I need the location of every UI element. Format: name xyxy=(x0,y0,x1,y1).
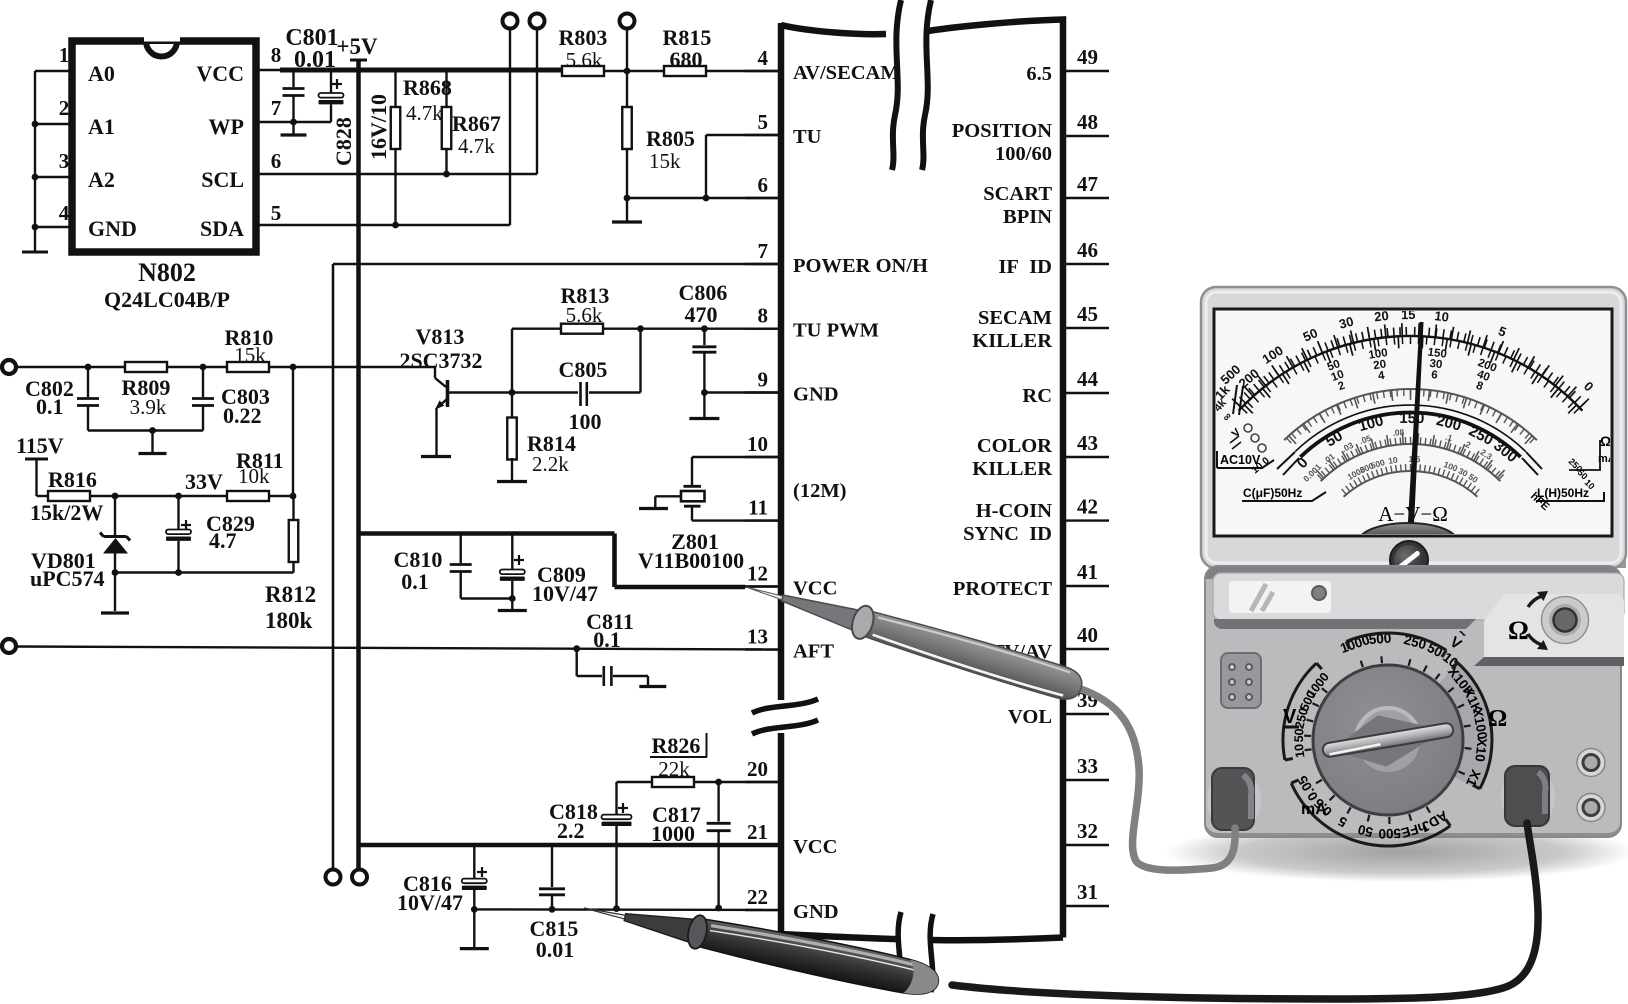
resistor R826 xyxy=(650,733,707,787)
zero adjust knob xyxy=(1390,541,1428,579)
svg-text:R805: R805 xyxy=(646,126,695,151)
wire C802/C803 bottom xyxy=(88,429,203,431)
dial pointer xyxy=(1319,703,1458,776)
pin 48 xyxy=(1066,110,1109,136)
svg-text:4: 4 xyxy=(758,46,769,70)
capacitor C816 electrolytic xyxy=(397,845,487,915)
svg-text:0.1: 0.1 xyxy=(36,394,64,419)
wire pin11 xyxy=(692,519,781,521)
svg-text:31: 31 xyxy=(1077,880,1098,904)
svg-text:41: 41 xyxy=(1077,560,1098,584)
wire N802 left bus xyxy=(22,71,48,252)
svg-text:VOL: VOL xyxy=(1008,706,1052,728)
svg-text:C828: C828 xyxy=(331,117,356,166)
V~ label xyxy=(1447,624,1472,654)
N802 pin 5 xyxy=(256,201,510,225)
svg-text:TU: TU xyxy=(793,126,822,148)
right jacks xyxy=(1577,749,1605,822)
capacitor C805 xyxy=(512,329,641,434)
scale cluster numbers xyxy=(1326,346,1498,393)
svg-text:0.22: 0.22 xyxy=(223,403,262,428)
pin 33 xyxy=(1066,754,1109,780)
svg-text:V813: V813 xyxy=(416,324,465,349)
svg-text:4.7k: 4.7k xyxy=(406,101,443,125)
capacitor C809 electrolytic xyxy=(500,535,598,606)
mirror window xyxy=(1229,581,1331,613)
wire C810/C809 bottom xyxy=(461,595,516,602)
label ohm mA right xyxy=(1567,433,1616,491)
svg-text:R803: R803 xyxy=(559,25,608,50)
pin 20 stub xyxy=(745,757,781,782)
wire pin20 xyxy=(694,779,781,786)
svg-text:VCC: VCC xyxy=(793,836,837,858)
svg-text:13: 13 xyxy=(747,625,768,649)
N802 pin 6 xyxy=(256,149,537,174)
wire SCL to test point xyxy=(536,29,538,174)
wire R809-R810 xyxy=(167,366,228,368)
transistor V813 2SC3732 xyxy=(399,324,512,455)
rotary dial xyxy=(1313,664,1491,816)
svg-text:Q24LC04B/P: Q24LC04B/P xyxy=(104,287,230,312)
node C802 tap xyxy=(85,364,92,371)
pin 47 xyxy=(1066,172,1109,198)
svg-text:7: 7 xyxy=(271,96,282,120)
wire R803 to R815 xyxy=(604,70,663,72)
svg-text:6: 6 xyxy=(271,149,282,173)
wire R810 to base xyxy=(268,364,435,371)
node junction R803/R815/R805 xyxy=(624,68,631,75)
pin 13 stub xyxy=(745,625,781,650)
scale small gray rows xyxy=(1301,427,1494,485)
wire pin9 GND xyxy=(704,391,781,393)
svg-text:SCART: SCART xyxy=(983,183,1052,205)
svg-text:180k: 180k xyxy=(265,608,313,633)
test probe on pin 12 xyxy=(741,571,1086,705)
terminal test point SDA xyxy=(503,14,518,29)
IC pin labels left xyxy=(793,62,928,923)
svg-text:VCC: VCC xyxy=(793,578,837,600)
wire pin10 xyxy=(692,457,781,485)
svg-text:16V/10: 16V/10 xyxy=(366,94,391,160)
wire AFT line pin13 xyxy=(16,645,781,652)
scale numbers ohm row xyxy=(1212,307,1597,403)
svg-text:10V/47: 10V/47 xyxy=(532,581,598,606)
wire SDA to test point xyxy=(509,29,511,225)
pin 39 xyxy=(1066,688,1109,714)
svg-text:Ω: Ω xyxy=(1600,433,1611,449)
pin 32 xyxy=(1066,819,1109,845)
svg-text:10: 10 xyxy=(1387,455,1398,466)
svg-text:X10: X10 xyxy=(1472,737,1489,762)
svg-text:Ω: Ω xyxy=(1508,616,1529,645)
svg-text:VCC: VCC xyxy=(196,61,244,86)
svg-text:IF ID: IF ID xyxy=(998,256,1052,278)
svg-text:10V/47: 10V/47 xyxy=(397,890,463,915)
ground under VD801 xyxy=(101,573,129,614)
pin 4 stub xyxy=(745,46,781,71)
top strip xyxy=(1213,573,1624,620)
svg-text:POSITION: POSITION xyxy=(952,120,1052,142)
needle pivot dome xyxy=(1359,523,1457,559)
capacitor C815 xyxy=(530,845,579,962)
cable from red probe to meter left plug xyxy=(1078,688,1235,870)
meter needle xyxy=(1406,322,1424,556)
svg-text:1: 1 xyxy=(59,43,70,67)
wire pin4 AV/SECAM xyxy=(707,70,781,72)
svg-text:15k/2W: 15k/2W xyxy=(30,500,103,525)
N802 pin 3 xyxy=(32,149,72,180)
svg-text:mA: mA xyxy=(1301,801,1327,818)
resistor R811 xyxy=(227,448,284,501)
ground under C801 xyxy=(281,122,307,135)
svg-text:21: 21 xyxy=(747,820,768,844)
svg-text:4: 4 xyxy=(59,201,70,225)
svg-text:8: 8 xyxy=(271,43,282,67)
svg-text:44: 44 xyxy=(1077,367,1099,391)
ground under R809 xyxy=(139,427,167,453)
resistor R810 xyxy=(225,325,274,372)
ohm knob light panel xyxy=(1484,594,1624,657)
svg-text:R816: R816 xyxy=(48,467,97,492)
svg-text:COLOR: COLOR xyxy=(977,435,1052,457)
svg-text:AFT: AFT xyxy=(793,641,834,663)
svg-text:9: 9 xyxy=(758,368,769,392)
svg-text:RC: RC xyxy=(1022,385,1052,407)
svg-text:C805: C805 xyxy=(559,357,608,382)
svg-text:R826: R826 xyxy=(652,733,701,758)
ground under R805 xyxy=(612,198,642,222)
svg-text:V11B00100: V11B00100 xyxy=(638,548,744,573)
svg-text:20: 20 xyxy=(747,757,768,781)
svg-text:0.01: 0.01 xyxy=(294,47,336,73)
svg-text:2: 2 xyxy=(59,96,70,120)
svg-text:V: V xyxy=(1283,706,1297,728)
svg-text:TU PWM: TU PWM xyxy=(793,320,879,342)
svg-text:6: 6 xyxy=(758,173,769,197)
capacitor C829 electrolytic xyxy=(166,496,255,573)
pin 41 xyxy=(1066,560,1109,586)
svg-text:15k: 15k xyxy=(649,149,681,173)
pin 43 xyxy=(1066,431,1109,457)
svg-text:Ω: Ω xyxy=(1488,706,1507,732)
svg-text:33V: 33V xyxy=(185,469,223,494)
node C803 tap xyxy=(200,364,207,371)
indicator LED xyxy=(1312,586,1326,600)
svg-text:40: 40 xyxy=(1077,623,1098,647)
wire R811 right xyxy=(268,493,296,500)
svg-text:4.7k: 4.7k xyxy=(458,134,495,158)
wire pin21 VCC thick xyxy=(359,843,782,848)
svg-text:500: 500 xyxy=(1378,826,1401,841)
capacitor C803 xyxy=(192,367,270,431)
label C(uF)50Hz xyxy=(1242,486,1326,501)
pin 40 xyxy=(1066,623,1109,649)
svg-text:10k: 10k xyxy=(238,464,270,488)
wire collector up to R813 line xyxy=(511,329,513,393)
svg-text:R812: R812 xyxy=(265,582,316,607)
svg-text:150: 150 xyxy=(1399,410,1424,427)
svg-text:4.7: 4.7 xyxy=(209,528,237,553)
svg-text:100: 100 xyxy=(569,409,602,434)
meter scale arcs xyxy=(1232,323,1589,497)
svg-text:48: 48 xyxy=(1077,110,1098,134)
svg-text:33: 33 xyxy=(1077,754,1098,778)
pin 21 stub xyxy=(745,820,781,845)
pin 5 stub xyxy=(745,110,781,135)
IC pin labels right xyxy=(952,63,1053,728)
ground under C816 xyxy=(460,909,489,948)
pin 42 xyxy=(1066,495,1109,521)
svg-text:22: 22 xyxy=(747,885,768,909)
resistor R809 xyxy=(122,362,171,419)
multimeter lower body xyxy=(1205,566,1621,837)
svg-text:8: 8 xyxy=(758,304,769,328)
svg-text:45: 45 xyxy=(1077,302,1098,326)
ground under C811 xyxy=(639,685,666,688)
pin 22 stub xyxy=(745,885,781,910)
svg-text:GND: GND xyxy=(793,901,839,923)
svg-text:uPC574: uPC574 xyxy=(30,566,105,591)
N802 pin 8 xyxy=(256,43,282,70)
pin 8 stub xyxy=(745,304,781,329)
N802 pin 1 xyxy=(35,43,72,71)
N802 pin 7 xyxy=(256,96,331,125)
svg-text:49: 49 xyxy=(1077,45,1098,69)
ground under R814 xyxy=(497,480,527,483)
svg-text:C(μF)50Hz: C(μF)50Hz xyxy=(1243,486,1302,500)
svg-text:A1: A1 xyxy=(88,114,115,139)
svg-text:SCL: SCL xyxy=(201,167,244,192)
svg-text:R868: R868 xyxy=(403,75,452,100)
pin 31 xyxy=(1066,880,1109,906)
strip shadow band xyxy=(1214,619,1476,629)
svg-text:115V: 115V xyxy=(16,433,64,458)
svg-text:47: 47 xyxy=(1077,172,1098,196)
pin 49 xyxy=(1066,45,1109,71)
svg-text:12: 12 xyxy=(747,562,768,586)
svg-text:32: 32 xyxy=(1077,819,1098,843)
wire test point 3 stub xyxy=(626,29,628,71)
wire +5V VCC rail horizontal xyxy=(280,68,562,73)
pin 45 xyxy=(1066,302,1109,328)
N802 pin 4 xyxy=(32,201,72,230)
label AC10V xyxy=(1217,451,1274,468)
svg-text:2SC3732: 2SC3732 xyxy=(399,348,482,373)
capacitor C801 xyxy=(283,25,339,122)
capacitor C806 xyxy=(679,280,728,396)
capacitor C810 xyxy=(394,535,472,599)
resistor R812 xyxy=(265,496,316,633)
ground under C806 xyxy=(689,393,719,419)
break marks IC left edge xyxy=(752,699,818,734)
pin 6 stub xyxy=(745,173,781,198)
terminal left AFT xyxy=(2,639,16,653)
wire VCC thick trace xyxy=(359,534,782,588)
terminal test point SCL xyxy=(530,14,545,29)
svg-text:POWER ON/H: POWER ON/H xyxy=(793,255,928,277)
svg-text:GND: GND xyxy=(793,384,839,406)
dial bracket arcs xyxy=(1346,633,1446,650)
wire pin6 xyxy=(624,195,781,202)
svg-text:.08: .08 xyxy=(1392,427,1405,438)
svg-text:2.2: 2.2 xyxy=(557,818,585,843)
svg-text:R867: R867 xyxy=(452,111,501,136)
svg-text:BPIN: BPIN xyxy=(1003,206,1052,228)
svg-text:470: 470 xyxy=(685,302,718,327)
terminal left input xyxy=(2,360,16,374)
svg-text:3: 3 xyxy=(59,149,70,173)
wire GND bottom rail pin22 xyxy=(471,905,781,913)
crystal Z801 V11B00100 xyxy=(638,486,744,573)
wire R813 to IC pin8 xyxy=(603,325,781,332)
break marks IC top xyxy=(892,0,931,170)
ground under C809 xyxy=(498,599,527,611)
test probe on pin 22 GND xyxy=(580,890,942,1000)
svg-text:42: 42 xyxy=(1077,495,1098,519)
wire pin7 vertical xyxy=(332,264,335,869)
svg-text:WP: WP xyxy=(209,114,244,139)
cable from black probe to meter right plug xyxy=(952,823,1538,999)
svg-text:PROTECT: PROTECT xyxy=(953,578,1052,600)
svg-text:A2: A2 xyxy=(88,167,115,192)
wire +5V vertical rail xyxy=(356,70,361,869)
resistor R868 xyxy=(391,70,452,228)
wire input line xyxy=(16,366,126,368)
pin 7 stub xyxy=(745,239,781,264)
node collector junction xyxy=(509,389,516,396)
svg-text:H-COIN: H-COIN xyxy=(976,500,1053,522)
resistor R805 xyxy=(622,71,695,198)
scale left end details xyxy=(1212,385,1266,452)
svg-text:5: 5 xyxy=(271,201,282,225)
svg-text:AV/SECAM: AV/SECAM xyxy=(793,62,900,84)
resistor R816 xyxy=(30,467,103,525)
wire base feedback vertical xyxy=(292,367,294,496)
svg-text:0.1: 0.1 xyxy=(593,627,621,652)
IC U801 main body xyxy=(781,20,1063,941)
svg-text:SECAM: SECAM xyxy=(978,307,1052,329)
svg-text:KILLER: KILLER xyxy=(972,330,1052,352)
ohm adjust knob xyxy=(1508,591,1589,650)
svg-text:(12M): (12M) xyxy=(793,480,847,502)
dial scale labels xyxy=(1283,624,1507,846)
label L(H)50Hz xyxy=(1536,486,1604,501)
capacitor C818 electrolytic xyxy=(549,782,652,909)
wire pin8 TU PWM line xyxy=(512,328,562,330)
svg-text:46: 46 xyxy=(1077,238,1098,262)
N802 pin 2 xyxy=(32,96,72,127)
svg-text:0.1: 0.1 xyxy=(401,569,429,594)
crystal case ground tab xyxy=(639,496,681,508)
meter screen xyxy=(1214,309,1612,536)
pin 10 stub xyxy=(745,432,781,457)
resistor R815 xyxy=(663,25,712,76)
svg-text:KILLER: KILLER xyxy=(972,458,1052,480)
svg-text:N802: N802 xyxy=(138,258,196,287)
svg-text:1000: 1000 xyxy=(651,821,695,846)
multimeter face case xyxy=(1201,287,1626,568)
IC N802 Q24LC04B/P xyxy=(72,38,256,312)
svg-text:SDA: SDA xyxy=(200,216,244,241)
pin 44 xyxy=(1066,367,1109,393)
node +5V xyxy=(336,34,378,70)
resistor R813 xyxy=(561,283,610,334)
svg-text:11: 11 xyxy=(748,496,768,520)
svg-text:A0: A0 xyxy=(88,61,115,86)
svg-text:43: 43 xyxy=(1077,431,1098,455)
svg-text:2.2k: 2.2k xyxy=(532,452,569,476)
scale V row xyxy=(1294,410,1521,472)
break marks IC bottom xyxy=(898,912,933,992)
diode VD801 zener xyxy=(30,496,130,591)
svg-text:GND: GND xyxy=(88,216,137,241)
wire pin5 TU xyxy=(703,135,781,201)
wire zener bottom line xyxy=(112,569,294,576)
svg-text:5: 5 xyxy=(758,110,769,134)
capacitor C817 xyxy=(651,782,731,908)
right probe plug xyxy=(1501,765,1555,829)
svg-text:100/60: 100/60 xyxy=(995,143,1052,165)
wire pin7 POWER ON/H xyxy=(333,263,781,265)
wire 33V line xyxy=(90,469,228,499)
capacitor C811 xyxy=(577,609,648,686)
resistor R803 xyxy=(559,25,608,76)
svg-text:+5V: +5V xyxy=(336,34,378,59)
pin 9 stub xyxy=(745,368,781,393)
node 115V xyxy=(16,433,64,496)
connector block 6 holes xyxy=(1221,653,1261,708)
ohm range gray sector xyxy=(1439,664,1491,790)
svg-text:3.9k: 3.9k xyxy=(130,395,167,419)
ground under V813 emitter xyxy=(421,455,451,458)
svg-text:6.5: 6.5 xyxy=(1026,63,1052,85)
capacitor C828 electrolytic xyxy=(319,70,392,166)
resistor R814 xyxy=(507,393,576,481)
terminal bottom left 2 xyxy=(352,870,367,885)
terminal bottom left 1 xyxy=(326,870,341,885)
pin 11 stub xyxy=(745,496,781,521)
svg-text:7: 7 xyxy=(758,239,769,263)
resistor R867 xyxy=(442,70,501,177)
capacitor C802 xyxy=(25,367,99,431)
multimeter shadow xyxy=(1165,822,1628,882)
svg-text:SYNC ID: SYNC ID xyxy=(963,523,1052,545)
terminal test point AV xyxy=(620,14,635,29)
svg-text:0.01: 0.01 xyxy=(536,937,575,962)
left probe plug xyxy=(1207,767,1261,833)
pin 46 xyxy=(1066,238,1109,264)
pin 12 stub xyxy=(745,562,781,587)
svg-text:10: 10 xyxy=(747,432,768,456)
